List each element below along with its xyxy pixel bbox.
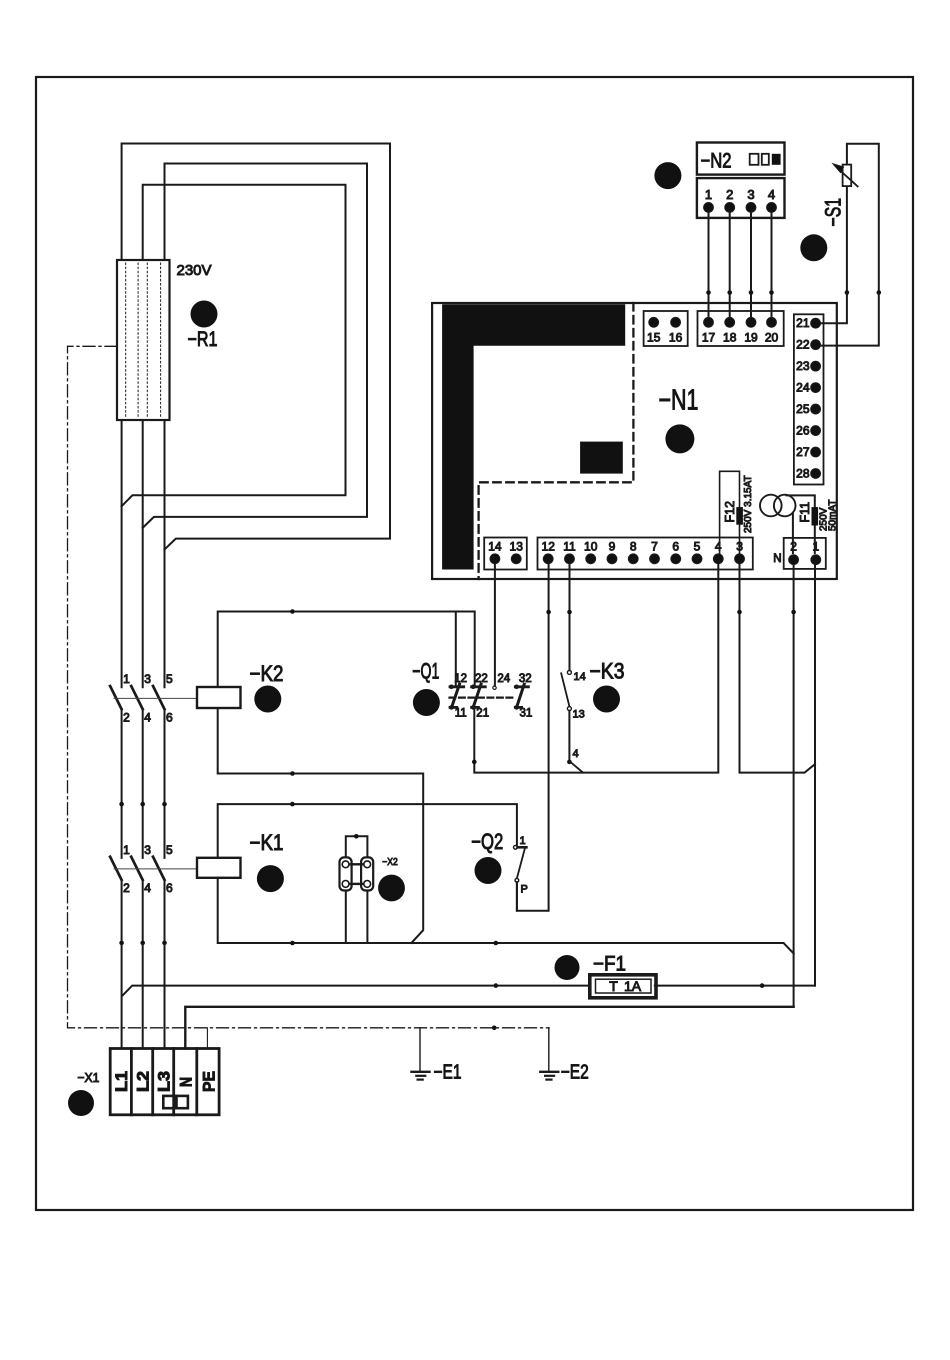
svg-text:3: 3 bbox=[144, 843, 151, 857]
fuse F12 element bbox=[736, 507, 743, 525]
svg-text:1: 1 bbox=[520, 835, 526, 847]
svg-text:1: 1 bbox=[123, 672, 130, 686]
balloon K3 bbox=[593, 686, 620, 713]
border frame bbox=[36, 77, 913, 1210]
svg-text:N: N bbox=[177, 1077, 196, 1087]
svg-text:12: 12 bbox=[454, 673, 467, 685]
motor protection switch Q1 contacts bbox=[450, 685, 464, 688]
svg-text:22: 22 bbox=[475, 673, 488, 685]
svg-text:5: 5 bbox=[166, 843, 173, 857]
wire K1 coil bottom to neutral line bbox=[218, 878, 794, 954]
svg-text:25: 25 bbox=[796, 402, 810, 416]
svg-text:10: 10 bbox=[584, 540, 598, 554]
svg-text:17: 17 bbox=[702, 331, 716, 345]
relay contact K3 14-13 bbox=[567, 670, 571, 674]
svg-text:L1: L1 bbox=[112, 1071, 131, 1092]
wire K2 coil bottom loop bbox=[218, 708, 424, 943]
svg-text:20: 20 bbox=[765, 331, 779, 345]
svg-text:22: 22 bbox=[796, 338, 810, 352]
wires N2 pins to N1 terminals 17-20 bbox=[708, 212, 710, 322]
wires X2 to neutral line bbox=[345, 891, 347, 944]
svg-text:L3: L3 bbox=[155, 1071, 174, 1092]
svg-text:4: 4 bbox=[144, 711, 151, 725]
svg-text:8: 8 bbox=[630, 540, 637, 554]
connector X2 bracket bbox=[346, 836, 368, 857]
svg-text:2: 2 bbox=[726, 187, 733, 202]
svg-text:PE: PE bbox=[199, 1071, 218, 1092]
svg-text:3: 3 bbox=[747, 187, 754, 202]
N1 black L-shaped board bbox=[442, 304, 625, 569]
svg-text:P: P bbox=[521, 884, 528, 896]
svg-text:11: 11 bbox=[455, 708, 467, 720]
pressure switch Q2 contact bbox=[514, 845, 518, 849]
svg-text:7: 7 bbox=[651, 540, 658, 554]
svg-text:−K2: −K2 bbox=[250, 661, 284, 686]
wire neutral line to X1 N cell bbox=[185, 1007, 793, 1049]
svg-text:2: 2 bbox=[123, 881, 130, 895]
svg-text:12: 12 bbox=[542, 540, 556, 554]
svg-text:−Q1: −Q1 bbox=[412, 659, 439, 684]
junction dots on S1 wires bbox=[845, 290, 850, 295]
svg-text:32: 32 bbox=[519, 673, 532, 685]
svg-text:−N2: −N2 bbox=[701, 150, 732, 173]
balloon K1 bbox=[257, 865, 284, 892]
wire R1 loop 2 (L3 top loop) bbox=[143, 164, 367, 528]
svg-text:14: 14 bbox=[574, 671, 586, 683]
transformer in N1 bbox=[760, 495, 782, 517]
svg-text:2: 2 bbox=[123, 711, 130, 725]
wire terminal 4 to node line / Q1 21 bbox=[474, 565, 718, 773]
Q1 contact 24 terminal bbox=[493, 686, 496, 689]
mechanical link line K1 contacts to coil bbox=[114, 868, 197, 870]
svg-text:−E1: −E1 bbox=[434, 1062, 462, 1084]
junction dots on K1 lines bbox=[290, 802, 295, 807]
mechanical link line K2 contacts to coil bbox=[114, 697, 197, 699]
N2 indicator squares bbox=[750, 154, 759, 165]
resistor R1 (heater block) bbox=[117, 260, 170, 420]
temperature sensor S1 symbol bbox=[843, 165, 852, 187]
wire terminal 14 to Q1 contact 24 bbox=[494, 565, 496, 686]
wire R1 loop 1 (L1 top loop) bbox=[122, 144, 390, 550]
svg-text:6: 6 bbox=[672, 540, 679, 554]
wire Q1 12 feed bbox=[455, 612, 457, 686]
K3 blade to node line bbox=[570, 762, 583, 773]
svg-text:13: 13 bbox=[573, 709, 585, 721]
wire transformer to terminal 2 bbox=[792, 514, 794, 553]
wire PE drop to X1 bbox=[206, 1028, 208, 1049]
svg-text:24: 24 bbox=[497, 673, 510, 685]
balloon Q2 bbox=[475, 857, 502, 884]
N1 terminal box 15-16 bbox=[644, 311, 688, 346]
N1 terminal box 21-28 bbox=[794, 314, 824, 484]
svg-text:230V: 230V bbox=[177, 262, 212, 279]
svg-text:−N1: −N1 bbox=[659, 385, 699, 417]
svg-text:3: 3 bbox=[144, 672, 151, 686]
svg-text:21: 21 bbox=[796, 316, 810, 330]
svg-text:31: 31 bbox=[520, 708, 533, 720]
svg-text:5: 5 bbox=[694, 540, 701, 554]
svg-text:27: 27 bbox=[796, 445, 810, 459]
svg-text:−K3: −K3 bbox=[590, 659, 625, 684]
svg-text:50mAT: 50mAT bbox=[828, 500, 839, 532]
balloon X2 bbox=[378, 875, 405, 902]
svg-text:6: 6 bbox=[166, 881, 173, 895]
svg-text:21: 21 bbox=[476, 708, 489, 720]
wire R1 loop 3 (L2 top loop) bbox=[122, 185, 346, 507]
wire phase L2 vertical bbox=[142, 420, 144, 1049]
svg-text:4: 4 bbox=[715, 540, 722, 554]
terminal block X1 bbox=[110, 1049, 219, 1115]
contactor K2 main contacts 1-6 bbox=[110, 686, 122, 709]
svg-text:−R1: −R1 bbox=[188, 328, 218, 351]
svg-text:24: 24 bbox=[796, 381, 810, 395]
junction dots on F1 line bbox=[494, 983, 499, 988]
svg-text:−E2: −E2 bbox=[561, 1062, 589, 1084]
wire L1 to fuse F1 bbox=[122, 986, 815, 996]
wire K1 coil loop top bbox=[218, 804, 517, 858]
svg-text:26: 26 bbox=[796, 424, 810, 438]
earth E2 bbox=[548, 1028, 550, 1072]
coil K2 bbox=[197, 687, 241, 708]
wire phase L3 vertical bbox=[164, 420, 166, 1049]
svg-text:9: 9 bbox=[609, 540, 616, 554]
balloon X1 bbox=[68, 1090, 94, 1116]
svg-text:19: 19 bbox=[744, 331, 758, 345]
contactor K1 main contacts 1-6 bbox=[110, 857, 122, 880]
svg-text:14: 14 bbox=[488, 540, 502, 554]
wire terminal 3 to node line joining terminal 1 wire bbox=[740, 565, 815, 773]
svg-text:23: 23 bbox=[796, 359, 810, 373]
svg-text:28: 28 bbox=[796, 466, 810, 480]
controller N2 body bbox=[697, 143, 785, 175]
junction dots below N1 bbox=[546, 610, 551, 615]
fuse F1 bbox=[590, 975, 656, 998]
svg-text:4: 4 bbox=[573, 748, 579, 760]
wire transformer to F11 and terminal 1 bbox=[787, 495, 815, 553]
wire phase L1 vertical bbox=[121, 420, 123, 1049]
N1 terminal box 2-1 bbox=[784, 538, 826, 569]
svg-text:1A: 1A bbox=[624, 978, 642, 994]
svg-text:T: T bbox=[609, 978, 618, 994]
svg-text:N: N bbox=[773, 553, 781, 565]
Q1 mechanical link dashed bbox=[450, 696, 514, 698]
svg-text:5: 5 bbox=[166, 672, 173, 686]
N1 terminal box 14-13 bbox=[484, 538, 527, 570]
X1 neutral link symbol bbox=[163, 1096, 175, 1108]
svg-text:−K1: −K1 bbox=[250, 830, 284, 855]
N1 terminal box 12-3 bbox=[538, 538, 753, 570]
svg-text:6: 6 bbox=[166, 711, 173, 725]
svg-text:4: 4 bbox=[144, 881, 151, 895]
svg-text:16: 16 bbox=[669, 331, 683, 345]
svg-text:1: 1 bbox=[123, 843, 130, 857]
wire K3 13 to 4 bbox=[568, 711, 570, 762]
fuse F12 wiring bbox=[720, 471, 740, 554]
svg-text:4: 4 bbox=[768, 187, 775, 202]
N1 terminal box 17-20 bbox=[698, 311, 784, 346]
balloon R1 bbox=[191, 301, 218, 328]
N1 dashed partition bbox=[479, 303, 634, 579]
svg-text:−Q2: −Q2 bbox=[471, 829, 503, 854]
fuse F11 element bbox=[812, 507, 819, 525]
junction dot on dash-dot line bbox=[492, 1026, 497, 1031]
balloon N1 bbox=[665, 424, 694, 453]
connector X2 mating pins bbox=[351, 863, 363, 865]
balloon F1 bbox=[555, 955, 580, 980]
balloon N2 bbox=[654, 162, 681, 189]
junction dots on phase wires bbox=[119, 802, 124, 807]
svg-text:F11: F11 bbox=[798, 502, 812, 523]
svg-text:−X2: −X2 bbox=[382, 857, 398, 868]
svg-text:L2: L2 bbox=[133, 1071, 152, 1092]
svg-text:1: 1 bbox=[705, 187, 712, 202]
junction dots K2 loop bbox=[290, 609, 295, 614]
svg-text:13: 13 bbox=[510, 540, 524, 554]
svg-text:11: 11 bbox=[563, 540, 576, 554]
svg-text:18: 18 bbox=[723, 331, 737, 345]
svg-text:1: 1 bbox=[812, 540, 819, 554]
svg-text:−S1: −S1 bbox=[821, 198, 846, 227]
junction dots on N2 wires bbox=[706, 290, 711, 295]
balloon Q1 bbox=[413, 689, 440, 716]
wire S1 to terminal 21 bbox=[820, 144, 879, 346]
wire terminal 2 to X1 N (neutral) bbox=[793, 565, 795, 1007]
svg-text:15: 15 bbox=[647, 331, 661, 345]
svg-text:−F1: −F1 bbox=[593, 953, 626, 976]
wire K2 coil loop top bbox=[218, 612, 475, 688]
connector X2 housings bbox=[340, 857, 352, 890]
coil K1 bbox=[197, 858, 241, 878]
wire terminal 1 down to F1 line bbox=[814, 565, 816, 986]
wire terminal 11 to K3 contact 14 bbox=[569, 565, 571, 671]
balloon S1 bbox=[800, 234, 827, 261]
earth E1 bbox=[419, 1028, 421, 1072]
controller N1 outline bbox=[432, 303, 837, 579]
svg-text:250V 3.15AT: 250V 3.15AT bbox=[743, 475, 754, 533]
N1 black square bbox=[580, 442, 623, 474]
dash-dot shield line from R1 to bottom bbox=[68, 346, 550, 1028]
svg-text:−X1: −X1 bbox=[77, 1070, 99, 1085]
svg-text:F12: F12 bbox=[723, 501, 737, 523]
balloon K2 bbox=[254, 686, 281, 713]
wire terminal 12 to Q2 P bbox=[517, 565, 549, 911]
